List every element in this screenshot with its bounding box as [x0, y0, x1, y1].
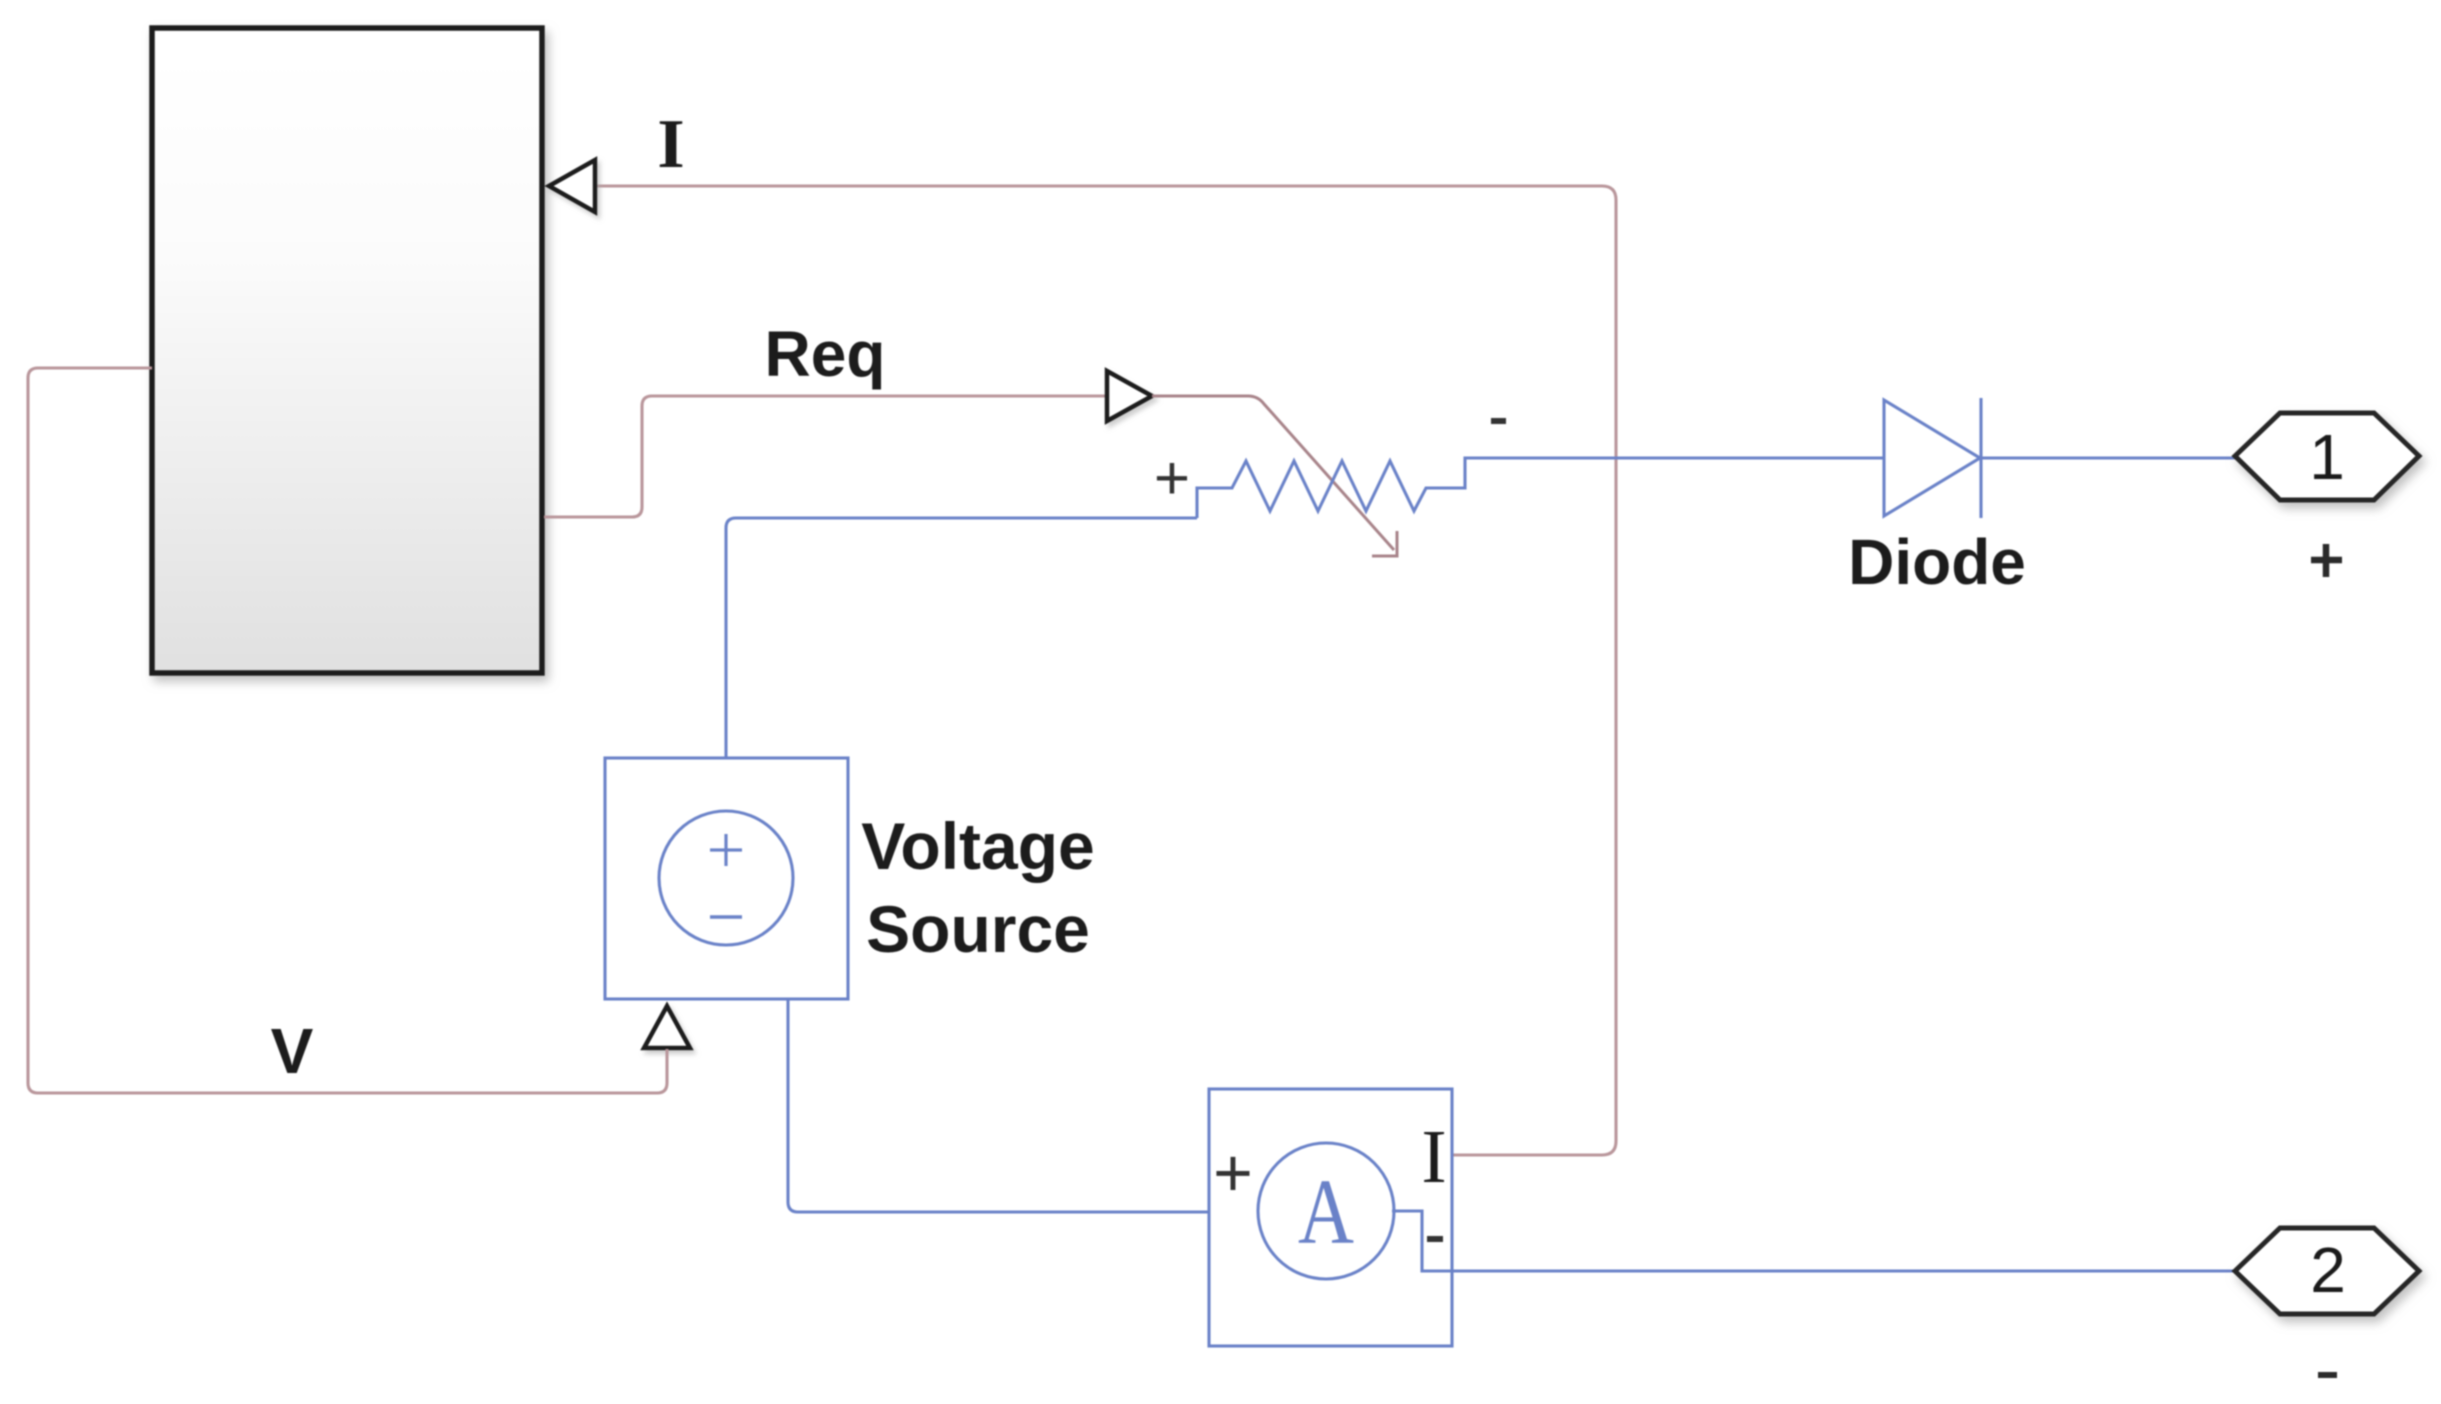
ammeter circle	[1258, 1143, 1394, 1279]
PS input triangle (voltage source bottom)	[644, 1006, 690, 1048]
svg-text:A: A	[1298, 1161, 1354, 1264]
svg-text:I: I	[1421, 1115, 1446, 1199]
wire (ammeter - to port 2)	[1392, 1211, 2235, 1271]
wire Req (subsystem output to variable resistor PS input)	[544, 396, 1106, 517]
label - (port 2)	[2318, 1372, 2337, 1378]
input port arrow I on subsystem	[549, 160, 595, 212]
wire (voltage source + up to resistor left lead)	[726, 518, 1197, 760]
svg-text:I: I	[657, 106, 684, 183]
ammeter U2 box	[1209, 1089, 1452, 1346]
subsystem block	[152, 28, 542, 673]
port 1 hexagon	[2235, 413, 2419, 500]
svg-text:+: +	[1213, 1135, 1253, 1211]
wire (diode cathode to port 1)	[1981, 456, 2235, 459]
label - (ammeter)	[1427, 1236, 1443, 1242]
minus inside source	[710, 915, 742, 919]
svg-text:Diode: Diode	[1848, 526, 2026, 598]
plus inside source	[710, 834, 742, 866]
svg-text:Voltage: Voltage	[861, 809, 1094, 883]
svg-text:Req: Req	[765, 318, 886, 390]
wire V (subsystem left to voltage source PS input)	[28, 368, 667, 1093]
svg-text:Source: Source	[866, 892, 1090, 966]
svg-text:1: 1	[2309, 421, 2345, 493]
variable resistor control arrow	[1152, 396, 1394, 550]
voltage source circle	[659, 811, 793, 945]
wire I (ammeter I output up and to subsystem input)	[597, 186, 1616, 1155]
wire (voltage source - down to ammeter +)	[788, 999, 1260, 1212]
voltage source U1 box	[605, 758, 848, 999]
diode D1	[1884, 398, 1981, 518]
resistor R (zigzag, variable)	[1197, 458, 1884, 518]
svg-text:2: 2	[2310, 1234, 2346, 1306]
PS input arrowhead (variable resistor)	[1107, 371, 1152, 421]
svg-text:+: +	[1154, 444, 1190, 513]
label - (resistor)	[1491, 418, 1506, 424]
port 2 hexagon	[2235, 1228, 2419, 1314]
label + (port 1)	[2311, 544, 2342, 577]
svg-text:V: V	[271, 1015, 314, 1087]
